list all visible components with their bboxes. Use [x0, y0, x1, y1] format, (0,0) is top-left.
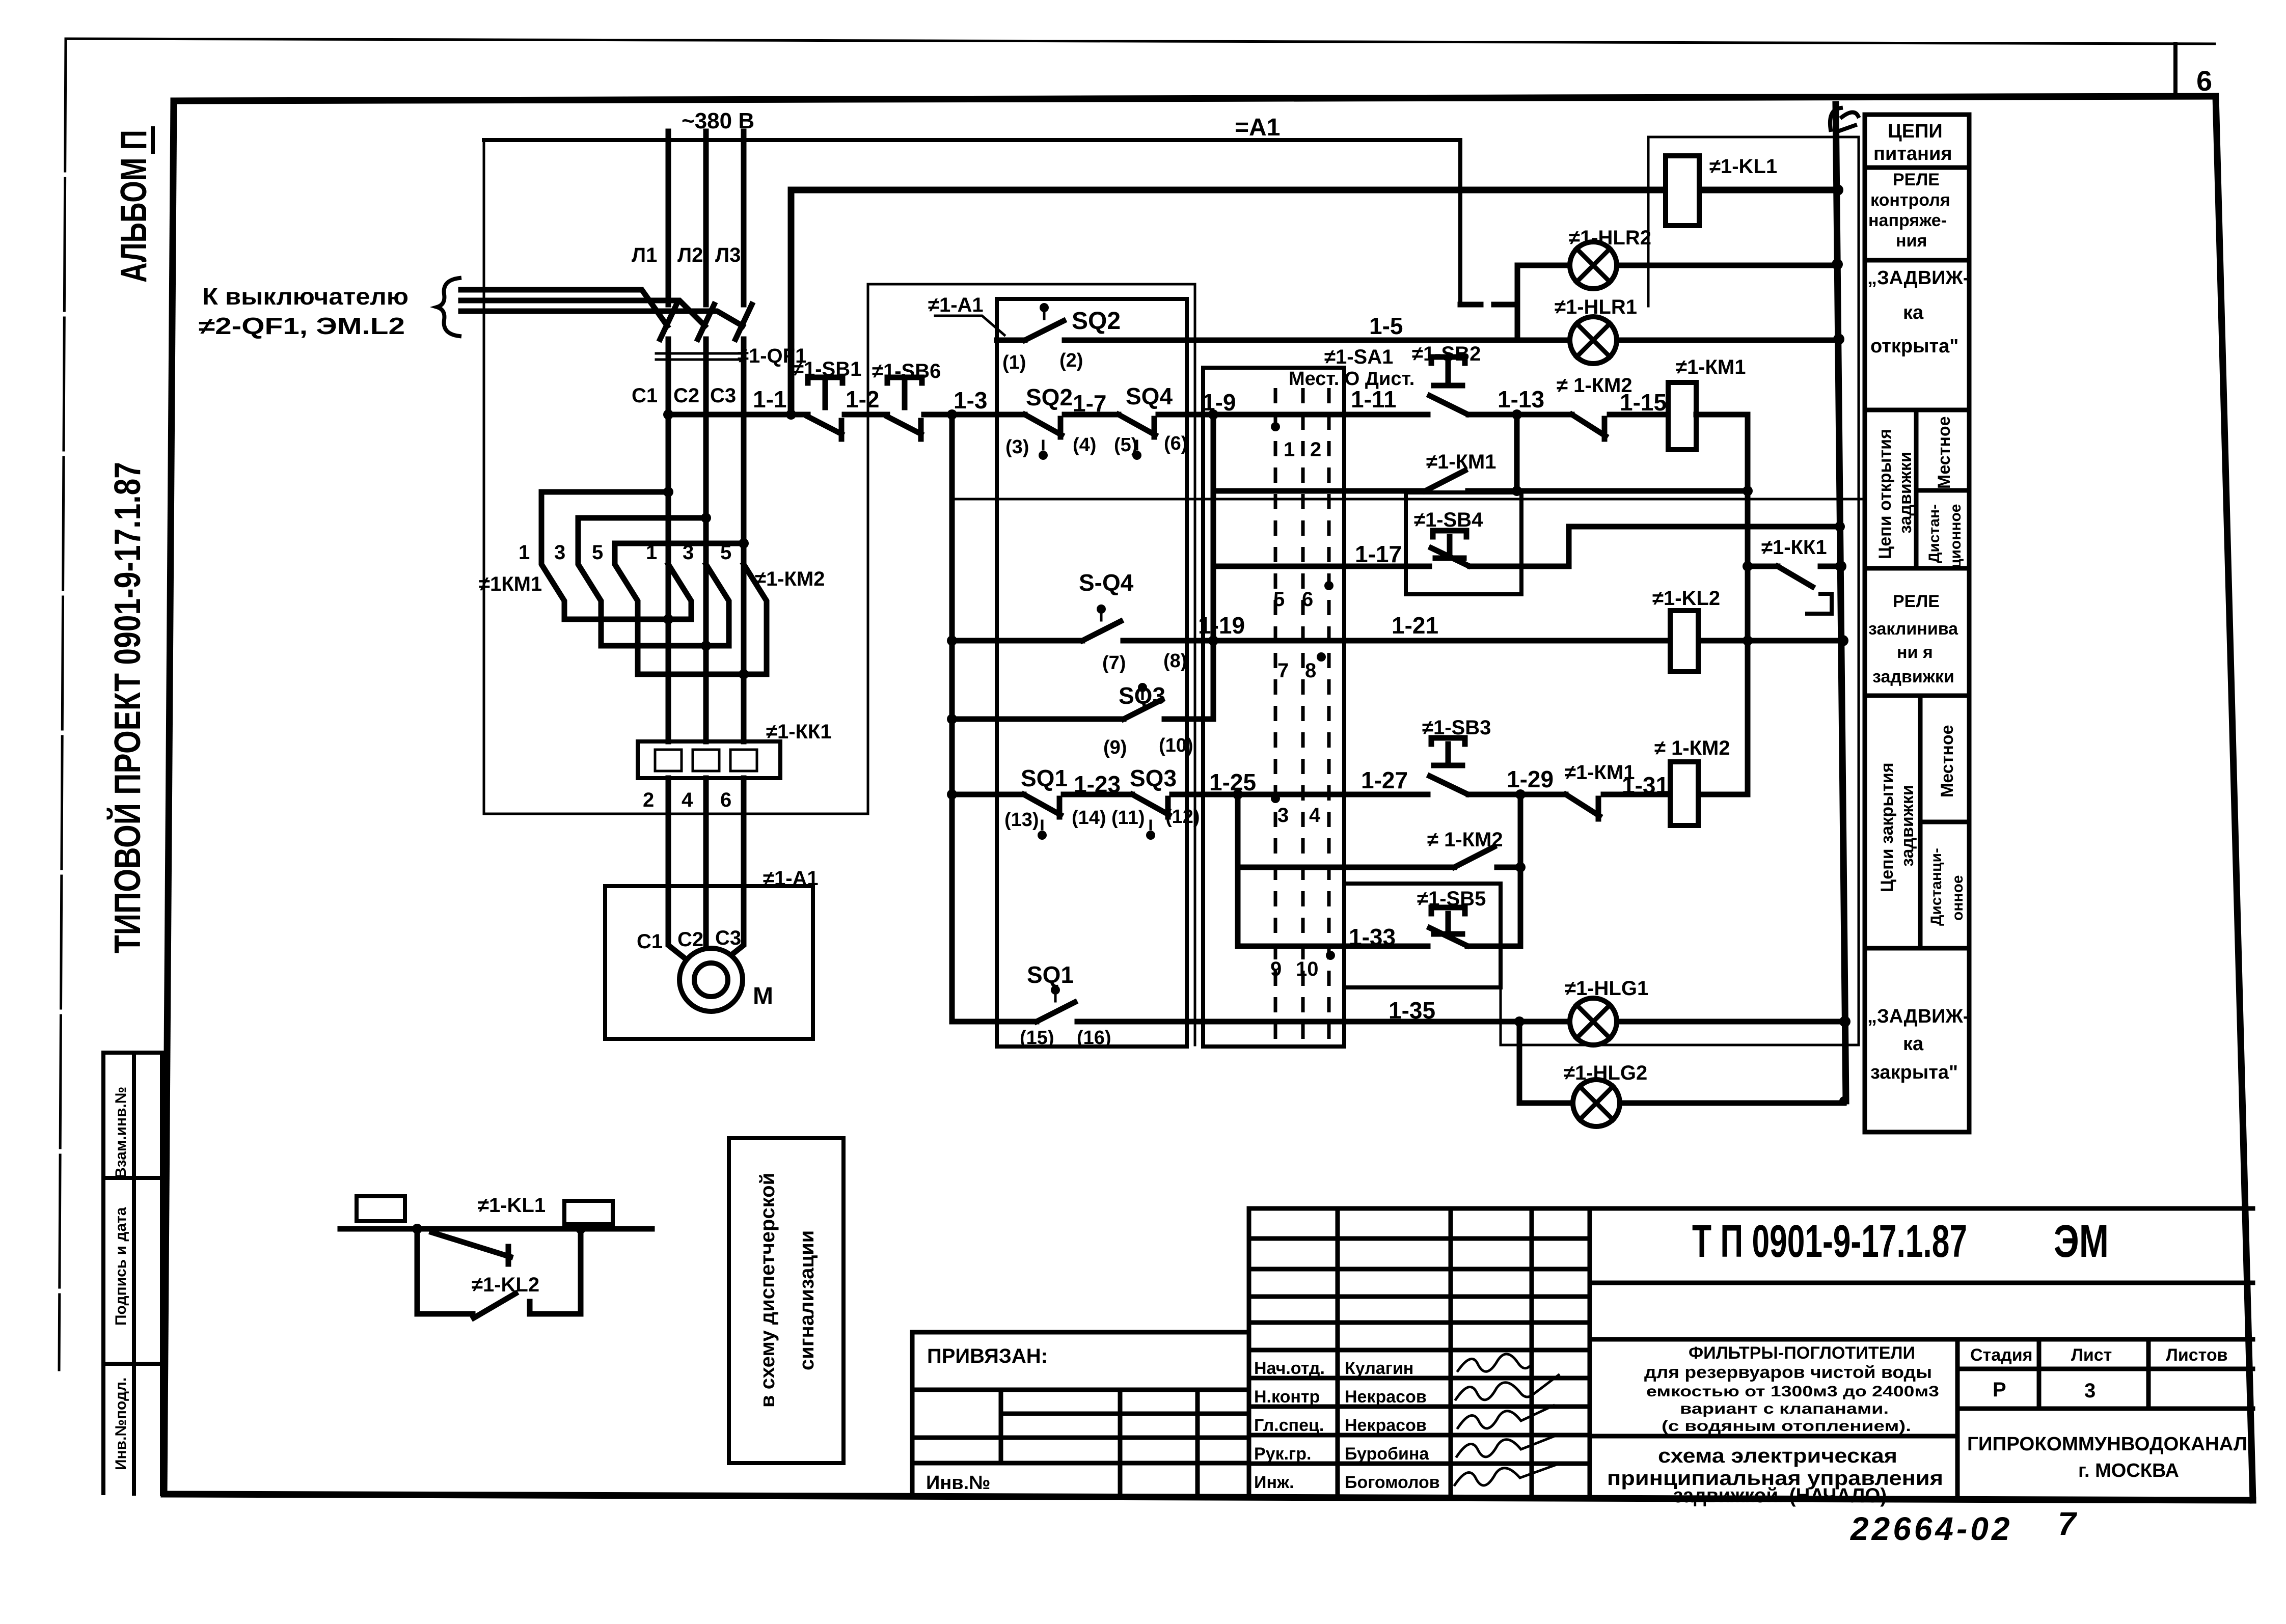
- feeder line Л2: [703, 131, 709, 305]
- svg-text:≠2-QF1, ЭМ.L2: ≠2-QF1, ЭМ.L2: [199, 313, 405, 339]
- svg-text:К выключателю: К выключателю: [202, 283, 409, 310]
- node KL1 rail / right rail: [1832, 184, 1843, 196]
- wire phase C to KK1: [741, 674, 747, 741]
- svg-text:(2): (2): [1059, 350, 1083, 371]
- svg-text:задвижкой. (НАЧАЛО).: задвижкой. (НАЧАЛО).: [1673, 1484, 1892, 1507]
- svg-text:≠1-KL2: ≠1-KL2: [1652, 587, 1720, 610]
- description divider: [1590, 1339, 1957, 1500]
- svg-text:6: 6: [1302, 588, 1313, 611]
- svg-text:≠1-КМ1: ≠1-КМ1: [1676, 356, 1746, 378]
- svg-text:ГИПРОКОММУНВОДОКАНАЛ: ГИПРОКОММУНВОДОКАНАЛ: [1967, 1434, 2247, 1455]
- node row K / right rail: [1839, 1016, 1850, 1027]
- svg-text:≠1-HLG1: ≠1-HLG1: [1565, 977, 1648, 1000]
- svg-text:открыта": открыта": [1870, 336, 1958, 357]
- node out rung1: [663, 614, 673, 624]
- svg-text:(9): (9): [1103, 737, 1127, 758]
- thermal relay KK1 box: [638, 741, 780, 778]
- svg-text:АЛЬБОМ П: АЛЬБОМ П: [114, 130, 154, 283]
- relay coil KL1: [1666, 156, 1699, 226]
- svg-text:С2: С2: [677, 928, 703, 951]
- svg-text:Кулагин: Кулагин: [1345, 1359, 1413, 1378]
- wire KL1 rail: [791, 187, 1838, 194]
- selector SA1 dashed contact line 1: [1274, 388, 1277, 1039]
- node KK1/right rail: [1835, 561, 1846, 572]
- svg-text:5: 5: [1273, 588, 1285, 611]
- SQ4 actuator: [1136, 441, 1138, 449]
- svg-text:≠ 1-КМ2: ≠ 1-КМ2: [1427, 829, 1503, 851]
- svg-text:≠1-КК1: ≠1-КК1: [1761, 536, 1827, 559]
- node 1-29: [1515, 789, 1526, 800]
- node rung2/phase B: [701, 513, 711, 523]
- legend table grid: [1865, 115, 1969, 1132]
- svg-text:Некрасов: Некрасов: [1345, 1416, 1427, 1435]
- phase B vertical: [703, 339, 709, 646]
- svg-text:М: М: [753, 983, 773, 1010]
- contactor KM1 pole 2: [578, 518, 601, 646]
- svg-text:„ЗАДВИЖ-: „ЗАДВИЖ-: [1867, 267, 1969, 289]
- lamp HLG1: [1570, 998, 1617, 1045]
- SA1 node row H: [1271, 794, 1280, 803]
- svg-text:≠1-KL1: ≠1-KL1: [478, 1194, 546, 1217]
- node right branch: [576, 1224, 586, 1234]
- signature area columns: [1338, 1208, 1532, 1499]
- svg-text:≠1-КМ2: ≠1-КМ2: [755, 568, 825, 590]
- node rung3/phase C: [739, 538, 749, 548]
- svg-text:(15): (15): [1020, 1027, 1054, 1049]
- wire row D (KM1 holding): [1213, 488, 1748, 494]
- svg-text:(с водяным отоплением).: (с водяным отоплением).: [1662, 1418, 1911, 1435]
- tap wire to 2-QF1 phase A: [461, 290, 667, 326]
- svg-text:1-13: 1-13: [1498, 386, 1544, 412]
- node rung1/phase A: [663, 487, 673, 497]
- svg-text:≠1-SB5: ≠1-SB5: [1417, 888, 1486, 910]
- wire phase A to KK1: [666, 619, 671, 741]
- node KK1/drop: [1743, 561, 1753, 571]
- pushbutton SB1 (stop, NC): [808, 377, 842, 439]
- svg-text:(16): (16): [1077, 1027, 1111, 1049]
- node phase A / control bus tap: [663, 409, 673, 420]
- svg-text:2: 2: [643, 789, 654, 811]
- lamp HLR2 wires: [1517, 263, 1837, 268]
- branch vertical 1-9 down: [1211, 415, 1216, 719]
- underline of II: [151, 128, 155, 152]
- svg-text:1-7: 1-7: [1073, 390, 1106, 417]
- svg-text:1-23: 1-23: [1074, 771, 1121, 797]
- svg-text:(1): (1): [1002, 352, 1026, 373]
- contactor KM1 pole 3: [615, 543, 638, 674]
- rail continuation marker: [1830, 108, 1858, 131]
- svg-text:≠1-SB2: ≠1-SB2: [1412, 343, 1481, 365]
- svg-text:Цепи открытия: Цепи открытия: [1875, 429, 1895, 559]
- svg-text:Дистанци-: Дистанци-: [1928, 848, 1945, 926]
- power block A1 outline: [484, 141, 868, 814]
- output rung 2: [601, 643, 729, 649]
- node row K branch: [1514, 1016, 1525, 1027]
- circuit breaker QF1 blade 1: [660, 305, 676, 339]
- contactor KM2 pole 3: [744, 564, 767, 674]
- svg-text:1-21: 1-21: [1392, 612, 1438, 639]
- svg-text:Буробина: Буробина: [1345, 1444, 1429, 1464]
- branch to HLG2: [1517, 1022, 1522, 1103]
- wire KK1 to motor phase A: [668, 778, 693, 965]
- svg-text:Листов: Листов: [2166, 1345, 2228, 1365]
- limit switch SQ1 (15)-(16): [1037, 1002, 1075, 1022]
- svg-text:SQ3: SQ3: [1119, 682, 1165, 709]
- contactor coil KM1: [1668, 382, 1696, 450]
- selector SA1 dashed contact line 3: [1327, 388, 1331, 1039]
- svg-text:С2: С2: [673, 384, 699, 407]
- lamp HLR1: [1570, 317, 1617, 364]
- tap wire to 2-QF1 phase C: [461, 311, 743, 326]
- node out rung3: [739, 669, 749, 679]
- right return leg: [530, 1229, 581, 1314]
- svg-text:емкостью от 1300м3 до 2400м3: емкостью от 1300м3 до 2400м3: [1646, 1383, 1939, 1400]
- drawing frame right edge: [2216, 96, 2253, 1500]
- pushbutton box SB4: [1406, 492, 1521, 594]
- wire KM1 coil to drop: [1696, 412, 1748, 418]
- feeder line Л1: [666, 131, 671, 305]
- wire 1-15: [1610, 412, 1668, 418]
- svg-text:≠1-HLR2: ≠1-HLR2: [1569, 227, 1651, 249]
- svg-text:1-31: 1-31: [1622, 772, 1669, 799]
- phase C vertical: [741, 339, 747, 674]
- contactor KM1 pole 1: [541, 492, 564, 619]
- svg-text:Местное: Местное: [1938, 725, 1957, 797]
- svg-text:SQ2: SQ2: [1026, 384, 1073, 410]
- svg-text:≠1-SB6: ≠1-SB6: [872, 360, 941, 382]
- SQ2 lower actuator: [1042, 441, 1045, 449]
- KK1 heater element 3: [730, 750, 757, 771]
- svg-text:в схему диспетчерской: в схему диспетчерской: [756, 1173, 779, 1408]
- svg-text:6: 6: [2196, 65, 2212, 97]
- svg-text:≠ 1-КМ2: ≠ 1-КМ2: [1654, 737, 1730, 759]
- svg-text:Цепи закрытия: Цепи закрытия: [1877, 762, 1897, 892]
- motor M circle: [679, 948, 743, 1011]
- branch 1-25 down: [1235, 794, 1241, 946]
- svg-text:SQ3: SQ3: [1130, 765, 1177, 791]
- legend row Цепи закрытия задвижки (split): [1920, 696, 1969, 948]
- svg-text:1-19: 1-19: [1198, 612, 1245, 639]
- SA1 node row C: [1271, 422, 1280, 431]
- svg-text:5: 5: [592, 541, 603, 564]
- sheet number box divider: [2173, 44, 2178, 97]
- svg-text:≠1-SB4: ≠1-SB4: [1414, 509, 1483, 531]
- node 1-25: [1233, 789, 1243, 800]
- wire row J 1-33: [1238, 944, 1520, 949]
- svg-text:(14): (14): [1072, 807, 1106, 829]
- svg-text:SQ1: SQ1: [1021, 765, 1068, 791]
- limit switch S-Q4: [1082, 621, 1121, 641]
- svg-text:напряже-: напряже-: [1868, 211, 1947, 230]
- wire row E 1-17: [1213, 527, 1840, 566]
- svg-text:1-2: 1-2: [846, 386, 879, 412]
- stage table: [1957, 1339, 2253, 1409]
- legend row Цепи открытия задвижки (split): [1916, 410, 1969, 568]
- contact KM1 NO aux (row D): [1425, 471, 1465, 491]
- thin boundary right block: [1501, 137, 1859, 1045]
- limit switch SQ3 (9)-(10): [1124, 700, 1162, 719]
- svg-text:≠1-КМ1: ≠1-КМ1: [1426, 451, 1496, 473]
- node 1-13: [1512, 409, 1522, 420]
- svg-text:г. МОСКВА: г. МОСКВА: [2078, 1460, 2179, 1481]
- svg-text:1-1: 1-1: [753, 386, 786, 412]
- svg-text:Гл.спец.: Гл.спец.: [1254, 1416, 1324, 1435]
- node row D / 1-13 branch: [1512, 486, 1522, 496]
- svg-text:5: 5: [720, 541, 731, 564]
- svg-text:онное: онное: [1949, 875, 1966, 921]
- node row F / coil drop: [1743, 636, 1753, 646]
- svg-text:задвижки: задвижки: [1896, 452, 1915, 534]
- svg-text:ционное: ционное: [1947, 504, 1964, 568]
- svg-text:≠1-KL2: ≠1-KL2: [472, 1274, 539, 1296]
- contact KM2 NO aux (row I): [1454, 847, 1494, 867]
- svg-text:1-15: 1-15: [1620, 389, 1667, 416]
- privyazan box frame: [912, 1332, 1249, 1493]
- svg-text:ни я: ни я: [1897, 643, 1933, 662]
- svg-text:ка: ка: [1903, 302, 1924, 323]
- wire 1-2: [845, 412, 887, 418]
- svg-text:(13): (13): [1004, 809, 1039, 831]
- breaker QF1 trip bar: [656, 353, 740, 360]
- svg-text:1-33: 1-33: [1349, 924, 1396, 950]
- drawing frame top edge: [174, 96, 2216, 101]
- contactor KM2 pole 2: [706, 564, 729, 646]
- SA1 node row F: [1317, 652, 1326, 662]
- svg-text:Нач.отд.: Нач.отд.: [1254, 1359, 1325, 1378]
- node bus / left rail: [947, 409, 957, 420]
- lamp HLG2: [1573, 1080, 1620, 1126]
- node riser/bus: [786, 409, 796, 420]
- svg-text:1-9: 1-9: [1202, 389, 1236, 416]
- svg-text:3: 3: [554, 541, 565, 564]
- svg-text:задвижки: задвижки: [1898, 785, 1917, 867]
- svg-text:Л1: Л1: [632, 244, 657, 266]
- wire KK1 to motor phase C: [719, 778, 744, 965]
- svg-text:Взам.инв.№: Взам.инв.№: [113, 1087, 129, 1178]
- svg-text:Инв.№подл.: Инв.№подл.: [113, 1378, 129, 1470]
- svg-text:3: 3: [683, 541, 694, 564]
- svg-text:2: 2: [1310, 438, 1321, 461]
- pushbutton SB2 (open, NO): [1430, 357, 1467, 414]
- wire row I KM2 holding: [1238, 865, 1520, 870]
- limit switch SQ1 (13)-(14): [1024, 794, 1060, 817]
- svg-text:1-5: 1-5: [1369, 313, 1403, 339]
- node 1-5 / right rail: [1833, 334, 1844, 345]
- circuit breaker QF1 blade 3: [736, 305, 752, 339]
- wire row K 1-35: [952, 1019, 1845, 1025]
- net =A1 top rail: [484, 140, 1460, 305]
- svg-text:задвижки: задвижки: [1872, 667, 1954, 686]
- svg-text:22664-02: 22664-02: [1850, 1510, 2012, 1547]
- svg-text:≠1-SB1: ≠1-SB1: [793, 358, 861, 380]
- contact KL1 (NO): [432, 1232, 510, 1264]
- right return rail: [1836, 104, 1846, 1101]
- svg-text:С3: С3: [715, 927, 741, 949]
- wire phase B to KK1: [703, 646, 709, 741]
- svg-text:ФИЛЬТРЫ-ПОГЛОТИТЕЛИ: ФИЛЬТРЫ-ПОГЛОТИТЕЛИ: [1689, 1343, 1915, 1363]
- svg-text:„ЗАДВИЖ-: „ЗАДВИЖ-: [1867, 1006, 1969, 1027]
- svg-text:1: 1: [1284, 438, 1295, 461]
- svg-text:для резервуаров чистой воды: для резервуаров чистой воды: [1644, 1363, 1932, 1382]
- wire KK1 to motor phase B: [703, 778, 709, 949]
- contactor KM2 pole 1: [668, 564, 691, 619]
- drawing frame left edge: [164, 101, 174, 1494]
- svg-text:Л2: Л2: [677, 244, 703, 266]
- svg-text:С1: С1: [632, 384, 658, 407]
- svg-text:1: 1: [519, 541, 530, 564]
- outer sheet border left: [59, 39, 66, 1370]
- wire row L HLG2: [1519, 1100, 1844, 1106]
- svg-text:≠1-А1: ≠1-А1: [928, 294, 984, 316]
- dashed link =A1 to lamp branch: [1460, 302, 1517, 308]
- node KL1 branch: [412, 1224, 422, 1234]
- svg-text:Подпись и дата: Подпись и дата: [113, 1207, 129, 1326]
- svg-text:Некрасов: Некрасов: [1345, 1387, 1427, 1407]
- svg-text:Л3: Л3: [715, 244, 741, 266]
- svg-text:≠1КМ1: ≠1КМ1: [479, 573, 542, 595]
- pushbutton SB5 (NO): [1430, 907, 1467, 946]
- output rung 3: [638, 672, 767, 677]
- wire row H: [952, 792, 1748, 797]
- svg-text:ПРИВЯЗАН:: ПРИВЯЗАН:: [927, 1345, 1048, 1367]
- pushbutton SB3 (close, NO): [1430, 738, 1467, 794]
- node left rail row F: [947, 636, 957, 646]
- svg-text:(12): (12): [1165, 806, 1200, 828]
- limit switch SQ3 (11)-(12): [1132, 794, 1169, 817]
- svg-text:ЦЕПИ: ЦЕПИ: [1888, 121, 1943, 142]
- svg-text:≠1-КК1: ≠1-КК1: [766, 721, 832, 743]
- svg-text:Рук.гр.: Рук.гр.: [1254, 1444, 1311, 1464]
- wire bus 1-1: [668, 412, 808, 418]
- limit switch SQ2 upper (1)-(2): [997, 321, 1064, 340]
- svg-text:Богомолов: Богомолов: [1345, 1473, 1440, 1492]
- KK1 release hook: [1807, 594, 1832, 614]
- brace: [437, 278, 459, 336]
- wire 1-3: [924, 412, 1025, 418]
- node rail end: [1839, 1096, 1848, 1106]
- dispatcher note box: [729, 1138, 843, 1463]
- node left rail row H: [947, 789, 957, 800]
- svg-text:6: 6: [720, 789, 731, 811]
- node 1-9: [1208, 409, 1218, 420]
- feeder line Л3: [741, 131, 747, 305]
- node row I right: [1515, 862, 1526, 872]
- terminal lug left: [357, 1196, 405, 1221]
- svg-text:Местное: Местное: [1935, 416, 1954, 489]
- branch 1-13 to row D: [1514, 415, 1520, 491]
- svg-text:1-17: 1-17: [1355, 541, 1402, 567]
- KK1 heater element 1: [655, 750, 682, 771]
- node row F / right rail: [1837, 635, 1848, 646]
- svg-text:(10): (10): [1159, 735, 1193, 756]
- circuit breaker QF1 blade 2: [698, 305, 714, 339]
- svg-text:ЭМ: ЭМ: [2054, 1216, 2109, 1267]
- signatures scribbles: [1458, 1354, 1530, 1371]
- node left rail row G: [947, 714, 957, 724]
- svg-text:заклинива: заклинива: [1868, 619, 1958, 639]
- svg-text:РЕЛЕ: РЕЛЕ: [1893, 592, 1940, 611]
- KM1 pole feed rung 3: [615, 541, 744, 546]
- node HLR2 / right rail: [1832, 259, 1843, 270]
- svg-text:3: 3: [2084, 1380, 2095, 1402]
- svg-text:7: 7: [2058, 1505, 2078, 1542]
- pushbutton box SB5: [1344, 884, 1501, 987]
- svg-text:Н.контр: Н.контр: [1254, 1387, 1320, 1407]
- pushbutton SB6 (NC): [887, 377, 922, 439]
- svg-text:1-29: 1-29: [1507, 766, 1554, 792]
- phase A vertical: [666, 339, 671, 619]
- terminal lug right: [564, 1201, 613, 1224]
- svg-text:ка: ка: [1903, 1033, 1924, 1055]
- svg-text:8: 8: [1305, 659, 1316, 682]
- contact KM1 NC (row H): [1566, 794, 1599, 819]
- wire 1-5 lamp rail: [1065, 338, 1839, 343]
- left feeder rail down: [949, 415, 955, 1022]
- svg-text:1: 1: [646, 541, 657, 564]
- node out rung2: [701, 641, 711, 651]
- contact KM2 NC (row C): [1572, 415, 1605, 439]
- relay coil KL2: [1670, 611, 1698, 672]
- svg-text:(3): (3): [1005, 436, 1029, 458]
- svg-text:1-11: 1-11: [1351, 386, 1397, 412]
- node 1-19: [1208, 636, 1218, 646]
- svg-text:ТИПОВОЙ ПРОЕКТ 0901-9-17.1.87: ТИПОВОЙ ПРОЕКТ 0901-9-17.1.87: [106, 462, 148, 953]
- wire row F 1-19 1-21: [952, 638, 1843, 644]
- svg-text:контроля: контроля: [1870, 190, 1950, 210]
- svg-text:вариант с клапанами.: вариант с клапанами.: [1680, 1400, 1889, 1417]
- svg-text:≠1-HLR1: ≠1-HLR1: [1555, 296, 1637, 318]
- svg-text:Стадия: Стадия: [1970, 1345, 2032, 1365]
- SA1 node row J: [1326, 951, 1335, 960]
- thin separator местное/дистанционное: [952, 498, 1865, 501]
- selector SA1 box: [1203, 368, 1344, 1047]
- selector SA1 dashed contact line 2: [1301, 388, 1305, 1039]
- SQ2 upper actuator: [1040, 303, 1049, 312]
- riser from bus to KL1 rail: [788, 190, 795, 415]
- svg-text:(5): (5): [1114, 434, 1137, 456]
- wire row C inside box: [1065, 412, 1428, 418]
- svg-text:≠1-А1: ≠1-А1: [763, 867, 819, 890]
- svg-text:≠1-SA1: ≠1-SA1: [1324, 346, 1393, 368]
- svg-text:Инв.№: Инв.№: [926, 1472, 991, 1494]
- svg-text:Т П 0901-9-17.1.87: Т П 0901-9-17.1.87: [1692, 1216, 1967, 1267]
- branch vertical 1-29 down: [1518, 794, 1523, 946]
- drawing frame bottom edge: [164, 1494, 2253, 1500]
- svg-text:(6): (6): [1164, 433, 1187, 454]
- svg-text:=А1: =А1: [1235, 114, 1280, 141]
- svg-text:1-3: 1-3: [954, 387, 987, 414]
- svg-text:С1: С1: [637, 930, 663, 953]
- svg-text:≠1-KL1: ≠1-KL1: [1709, 155, 1777, 178]
- lamp HLR2: [1570, 242, 1617, 289]
- KK1 heater element 2: [693, 750, 719, 771]
- drop from KM1 coil: [1745, 415, 1751, 794]
- svg-text:РЕЛЕ: РЕЛЕ: [1893, 170, 1940, 189]
- svg-text:Р: Р: [1993, 1379, 2006, 1401]
- svg-text:(4): (4): [1073, 434, 1096, 456]
- svg-text:(8): (8): [1163, 650, 1187, 672]
- contact KL2 path lower: [417, 1229, 515, 1318]
- svg-text:1-25: 1-25: [1209, 769, 1256, 795]
- svg-text:7: 7: [1277, 659, 1289, 682]
- limit switch box: [997, 299, 1187, 1047]
- svg-text:4: 4: [1309, 804, 1321, 827]
- title block outer: [1249, 1208, 2253, 1499]
- svg-text:С3: С3: [710, 384, 736, 407]
- tap wire to 2-QF1 phase B: [461, 300, 705, 326]
- svg-text:(11): (11): [1111, 807, 1145, 829]
- left margin stamp boxes: [103, 1053, 162, 1494]
